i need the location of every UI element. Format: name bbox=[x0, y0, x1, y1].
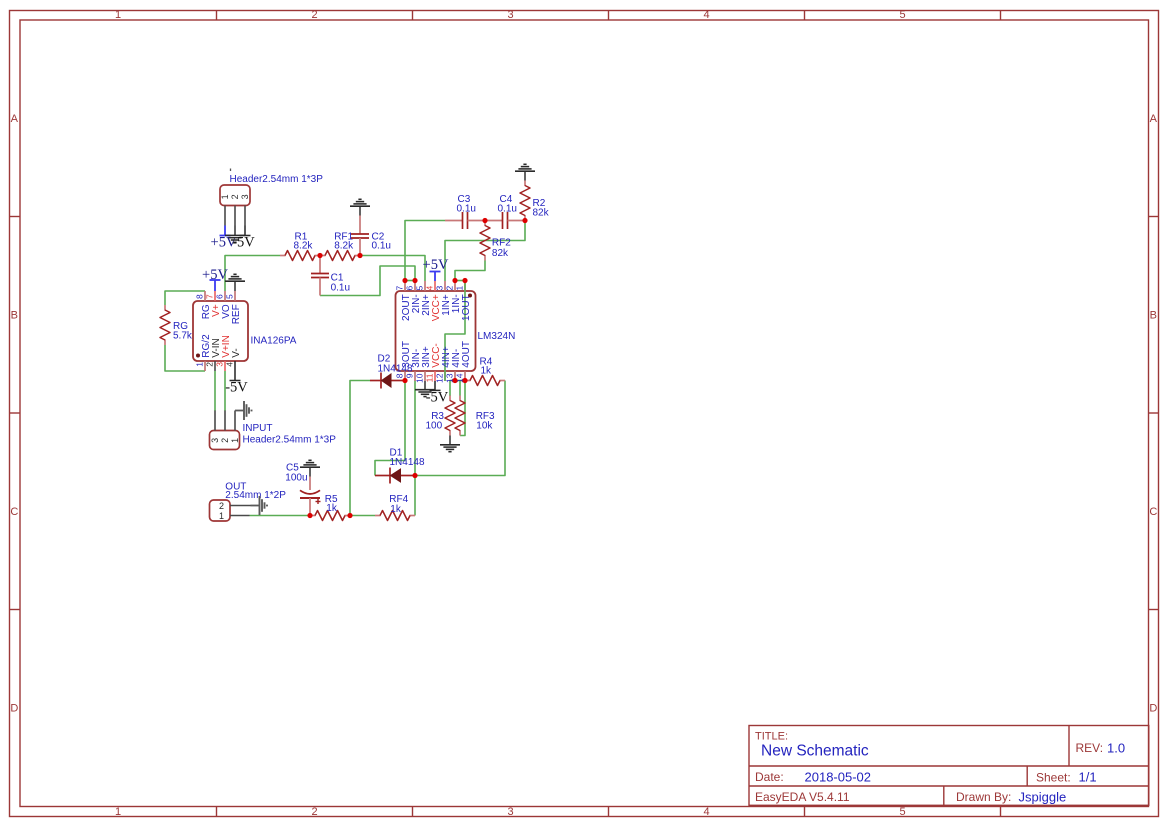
svg-text:1: 1 bbox=[220, 194, 230, 199]
svg-text:2: 2 bbox=[220, 438, 230, 443]
junction C3/C4/RF2 bbox=[482, 218, 487, 223]
svg-text:Drawn By:: Drawn By: bbox=[956, 790, 1011, 804]
svg-text:RF2: RF2 bbox=[492, 238, 511, 249]
svg-text:100u: 100u bbox=[285, 472, 307, 483]
GND flag on OUT pin 2 bbox=[251, 496, 268, 515]
svg-text:5: 5 bbox=[899, 806, 905, 818]
svg-text:4: 4 bbox=[703, 806, 709, 818]
op-amp U2 LM324N bbox=[396, 281, 476, 381]
wire INA pin3 to INPUT pin2 bbox=[224, 371, 226, 411]
svg-text:2018-05-02: 2018-05-02 bbox=[805, 769, 872, 784]
svg-text:-5V: -5V bbox=[225, 380, 248, 396]
ground above C5 bbox=[300, 460, 320, 476]
svg-text:5: 5 bbox=[415, 286, 425, 291]
svg-text:4: 4 bbox=[425, 286, 435, 291]
wire C1 bottom to LM324 pin6 (2IN-) bbox=[320, 266, 415, 296]
svg-text:11: 11 bbox=[425, 373, 435, 382]
junction LM324 pin14/R4 bbox=[462, 378, 467, 383]
svg-text:EasyEDA V5.4.11: EasyEDA V5.4.11 bbox=[755, 790, 850, 804]
wire link LM324 pins 2-1 bbox=[455, 280, 465, 282]
svg-text:A: A bbox=[1150, 113, 1158, 125]
capacitor C3 0.1u bbox=[445, 194, 485, 229]
svg-text:1N4148: 1N4148 bbox=[390, 457, 425, 468]
resistor R1 8.2k bbox=[280, 231, 320, 260]
+5V flag on INA pin 7 (V+) bbox=[202, 267, 228, 291]
svg-text:8: 8 bbox=[195, 294, 205, 299]
svg-text:B: B bbox=[11, 310, 18, 322]
resistor R3 100 bbox=[426, 396, 456, 436]
capacitor C5 100u (polarized) bbox=[285, 462, 320, 515]
svg-text:0.1u: 0.1u bbox=[331, 282, 350, 293]
diode D2 1N4148 bbox=[370, 353, 413, 388]
wire RG bottom to INA pin1 bbox=[165, 345, 205, 371]
in-amp U1 INA126PA bbox=[193, 291, 297, 371]
svg-text:-5V: -5V bbox=[426, 389, 449, 405]
wire LM324 pin7 (2OUT) up to C3 bbox=[405, 221, 445, 281]
wire LM324 pin9 (3IN-) down to RF4 right bbox=[414, 381, 416, 516]
junction D1 anode/R4 wire bbox=[412, 473, 417, 478]
-5V flag on LM324 pin 11 (VCC-) bbox=[426, 381, 449, 405]
svg-text:7: 7 bbox=[395, 286, 405, 291]
junction C4/R2/1IN+ bbox=[522, 218, 527, 223]
resistor RF2 82k bbox=[480, 221, 511, 261]
resistor R5 1k bbox=[310, 494, 350, 521]
svg-text:2: 2 bbox=[311, 9, 317, 21]
wire RF2 bottom to LM324 pin2 (1IN-) bbox=[455, 261, 485, 281]
svg-text:Header2.54mm 1*3P: Header2.54mm 1*3P bbox=[243, 435, 337, 446]
svg-text:Jspiggle: Jspiggle bbox=[1019, 789, 1067, 804]
wire link LM324 pins 13-14 with RF3 tap bbox=[455, 380, 465, 382]
svg-text:1OUT: 1OUT bbox=[461, 294, 472, 321]
junction RF4/D2 wire/R5 bbox=[347, 513, 352, 518]
ground on LM324 pin 10 (3IN+) bbox=[415, 381, 435, 397]
svg-text:5: 5 bbox=[225, 294, 235, 299]
svg-text:0.1u: 0.1u bbox=[498, 204, 517, 215]
wire RF1 right to LM324 pin5 (2IN+) bbox=[360, 256, 425, 282]
op-amp U2 LM324N pin names, numbers and label bbox=[395, 286, 516, 383]
svg-text:D: D bbox=[1149, 703, 1157, 715]
svg-text:8.2k: 8.2k bbox=[294, 240, 314, 251]
svg-text:3: 3 bbox=[507, 9, 513, 21]
capacitor C2 0.1u bbox=[351, 216, 391, 256]
svg-text:C: C bbox=[10, 506, 18, 518]
wire LM324 pin14 (4OUT) down to RF3 bottom bbox=[460, 381, 465, 436]
wire LM324 pin1 (1OUT) through box to pin12 (4IN+) bbox=[445, 281, 465, 382]
svg-text:New Schematic: New Schematic bbox=[761, 743, 869, 760]
svg-text:REV:: REV: bbox=[1076, 741, 1104, 755]
svg-text:TITLE:: TITLE: bbox=[755, 730, 788, 742]
ground above R2 bbox=[515, 164, 535, 180]
resistor R2 82k bbox=[520, 181, 550, 221]
diode D1 1N4148 bbox=[375, 447, 425, 483]
svg-text:2: 2 bbox=[219, 501, 224, 511]
ground below R3 bbox=[440, 436, 460, 452]
resistor RF4 1k bbox=[375, 494, 415, 521]
junction LM324 pin2 bbox=[452, 278, 457, 283]
wire link LM324 pins 7-6 bbox=[405, 280, 415, 282]
svg-text:+5V: +5V bbox=[202, 267, 228, 283]
svg-text:5.7k: 5.7k bbox=[173, 331, 193, 342]
wire LM324 pin8 (3OUT) down to D1 cathode bbox=[375, 381, 405, 476]
junction RF1/C2/wire bbox=[357, 253, 362, 258]
resistor RF1 8.2k bbox=[320, 231, 360, 260]
svg-text:INPUT: INPUT bbox=[243, 423, 273, 434]
svg-text:+5V: +5V bbox=[423, 257, 449, 273]
svg-text:1: 1 bbox=[455, 286, 465, 291]
svg-text:6: 6 bbox=[215, 294, 225, 299]
svg-text:0.1u: 0.1u bbox=[457, 204, 476, 215]
+5V flag on LM324 pin 4 (VCC+) bbox=[423, 257, 449, 281]
junction LM324 pin7 bbox=[402, 278, 407, 283]
ground on INA pin 5 (REF) bbox=[225, 274, 245, 291]
wire RG top to INA pin8 bbox=[165, 291, 205, 305]
connector Header2.54mm 1*3P (top, +5V/GND/-5V) bbox=[220, 169, 323, 226]
svg-text:3: 3 bbox=[507, 806, 513, 818]
svg-text:2.54mm 1*2P: 2.54mm 1*2P bbox=[225, 490, 286, 501]
svg-text:1: 1 bbox=[219, 511, 224, 521]
svg-text:1: 1 bbox=[115, 806, 121, 818]
svg-text:4OUT: 4OUT bbox=[461, 341, 472, 368]
svg-text:4: 4 bbox=[703, 9, 709, 21]
svg-text:3: 3 bbox=[435, 286, 445, 291]
junction LM324 pin6 bbox=[412, 278, 417, 283]
svg-text:1.0: 1.0 bbox=[1107, 740, 1125, 755]
svg-text:6: 6 bbox=[405, 286, 415, 291]
svg-text:1k: 1k bbox=[390, 504, 402, 515]
svg-text:2: 2 bbox=[230, 194, 240, 199]
svg-text:1: 1 bbox=[195, 362, 205, 367]
-5V flag on P1 pin 3 bbox=[232, 226, 255, 251]
svg-text:INA126PA: INA126PA bbox=[251, 336, 297, 347]
svg-text:100: 100 bbox=[426, 420, 443, 431]
svg-text:C: C bbox=[1149, 506, 1157, 518]
svg-text:1: 1 bbox=[115, 9, 121, 21]
junction LM324 pin13 bbox=[452, 378, 457, 383]
-5V flag on INA pin 4 (V-) bbox=[225, 361, 248, 396]
wire OUT pin1 to R5 bbox=[250, 515, 311, 517]
svg-text:-5V: -5V bbox=[232, 234, 255, 250]
svg-text:1k: 1k bbox=[481, 366, 493, 377]
svg-text:1: 1 bbox=[230, 438, 240, 443]
resistor RG 5.7k bbox=[160, 305, 193, 345]
wire R5 right to RF4 left junction bbox=[350, 515, 375, 517]
svg-text:1k: 1k bbox=[326, 503, 338, 514]
svg-text:B: B bbox=[1150, 310, 1157, 322]
svg-text:2: 2 bbox=[445, 286, 455, 291]
wire LM324 pin13 jog to R3 bbox=[450, 381, 455, 397]
junction R1/RF1/C1 bbox=[317, 253, 322, 258]
svg-text:7: 7 bbox=[205, 294, 215, 299]
ground above C2 bbox=[350, 199, 370, 215]
svg-text:0.1u: 0.1u bbox=[372, 240, 391, 251]
svg-text:Sheet:: Sheet: bbox=[1036, 770, 1071, 784]
svg-text:3: 3 bbox=[215, 362, 225, 367]
capacitor C4 0.1u bbox=[485, 194, 525, 229]
svg-text:10k: 10k bbox=[476, 420, 493, 431]
svg-text:8.2k: 8.2k bbox=[334, 240, 354, 251]
connector OUT 2.54mm 1*2P bbox=[210, 482, 287, 522]
resistor R4 1k bbox=[465, 356, 505, 385]
svg-text:5: 5 bbox=[899, 9, 905, 21]
svg-text:LM324N: LM324N bbox=[478, 331, 516, 342]
svg-text:1N4148: 1N4148 bbox=[378, 363, 413, 374]
wire D1 anode to R4 right bbox=[415, 381, 505, 476]
wire INA pin2 to INPUT pin3 bbox=[214, 371, 216, 411]
svg-text:Date:: Date: bbox=[755, 770, 784, 784]
ground on P1 pin 2 bbox=[225, 226, 245, 243]
GND flag on INPUT pin 1 bbox=[235, 401, 252, 420]
svg-text:1/1: 1/1 bbox=[1079, 770, 1097, 785]
svg-text:82k: 82k bbox=[533, 208, 550, 219]
svg-text:82k: 82k bbox=[492, 248, 509, 259]
svg-text:12: 12 bbox=[435, 373, 445, 383]
svg-text:2: 2 bbox=[311, 806, 317, 818]
svg-text:3: 3 bbox=[240, 194, 250, 199]
svg-text:Header2.54mm 1*3P: Header2.54mm 1*3P bbox=[230, 174, 324, 185]
junction LM324 pin8/D2 bbox=[402, 378, 407, 383]
junction C5/R5/OUT bbox=[307, 513, 312, 518]
svg-text:A: A bbox=[11, 113, 19, 125]
svg-text:3: 3 bbox=[210, 438, 220, 443]
junction LM324 pin1 bbox=[462, 278, 467, 283]
+5V flag on P1 pin 1 bbox=[211, 226, 237, 251]
svg-text:REF: REF bbox=[231, 304, 242, 324]
capacitor C1 0.1u bbox=[311, 256, 350, 296]
resistor RF3 10k bbox=[455, 396, 495, 436]
svg-text:4: 4 bbox=[225, 362, 235, 367]
wire D2 cathode down to RF4 left bbox=[350, 381, 370, 516]
connector INPUT Header2.54mm 1*3P bbox=[210, 411, 337, 450]
svg-text:D: D bbox=[10, 703, 18, 715]
svg-text:10: 10 bbox=[415, 373, 425, 383]
wire C4 right node down to LM324 pin3 (1IN+) bbox=[445, 221, 525, 282]
svg-text:2: 2 bbox=[205, 362, 215, 367]
svg-text:V-: V- bbox=[231, 348, 242, 357]
wire VO(INA pin6) to R1 bbox=[225, 256, 280, 292]
